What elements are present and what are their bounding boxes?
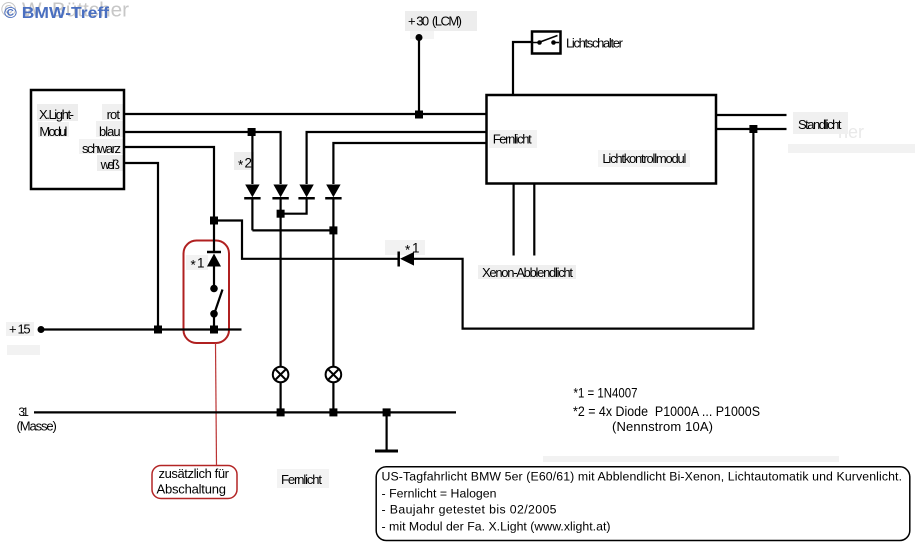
svg-text:1: 1 xyxy=(412,241,420,256)
svg-text:X.Light-: X.Light- xyxy=(39,107,74,122)
svg-text:Lichtschalter: Lichtschalter xyxy=(566,36,624,51)
svg-text:*1 = 1N4007: *1 = 1N4007 xyxy=(574,386,638,401)
svg-text:*2 = 4x Diode P1000A ... P100: *2 = 4x Diode P1000A ... P1000S xyxy=(573,404,760,419)
svg-text:1: 1 xyxy=(197,256,205,271)
svg-text:Standlicht: Standlicht xyxy=(798,117,842,132)
svg-text:Lichtkontrollmodul: Lichtkontrollmodul xyxy=(602,151,686,166)
svg-text:*: * xyxy=(191,258,197,273)
svg-text:rot: rot xyxy=(107,107,121,122)
svg-text:+ 30 (LCM): + 30 (LCM) xyxy=(408,14,462,29)
svg-text:(Nennstrom 10A): (Nennstrom 10A) xyxy=(612,419,713,434)
svg-text:- Baujahr getestet bis 02/2005: - Baujahr getestet bis 02/2005 xyxy=(382,503,557,517)
svg-text:© BMW-Treff: © BMW-Treff xyxy=(4,5,110,22)
svg-text:- Fernlicht = Halogen: - Fernlicht = Halogen xyxy=(382,486,497,500)
svg-text:weiß: weiß xyxy=(100,157,120,172)
svg-text:Fernlicht: Fernlicht xyxy=(281,472,322,487)
svg-text:schwarz: schwarz xyxy=(82,141,121,156)
svg-text:31: 31 xyxy=(18,405,29,419)
svg-text:blau: blau xyxy=(99,124,121,139)
svg-text:Fernlicht: Fernlicht xyxy=(493,132,532,147)
svg-text:*: * xyxy=(405,243,411,258)
svg-text:- mit Modul der Fa. X.Light (w: - mit Modul der Fa. X.Light (www.xlight.… xyxy=(382,519,611,533)
svg-text:Xenon-Abblendlicht: Xenon-Abblendlicht xyxy=(482,265,573,280)
svg-text:*: * xyxy=(238,158,244,173)
svg-text:Modul: Modul xyxy=(39,124,67,139)
svg-text:2: 2 xyxy=(245,156,253,171)
svg-text:Abschaltung: Abschaltung xyxy=(157,482,227,497)
svg-text:US-Tagfahrlicht BMW 5er (E60/6: US-Tagfahrlicht BMW 5er (E60/61) mit Abb… xyxy=(382,470,903,484)
svg-text:(Masse): (Masse) xyxy=(17,419,57,434)
svg-text:+ 15: + 15 xyxy=(9,321,31,336)
svg-text:zusätzlich für: zusätzlich für xyxy=(159,466,230,481)
